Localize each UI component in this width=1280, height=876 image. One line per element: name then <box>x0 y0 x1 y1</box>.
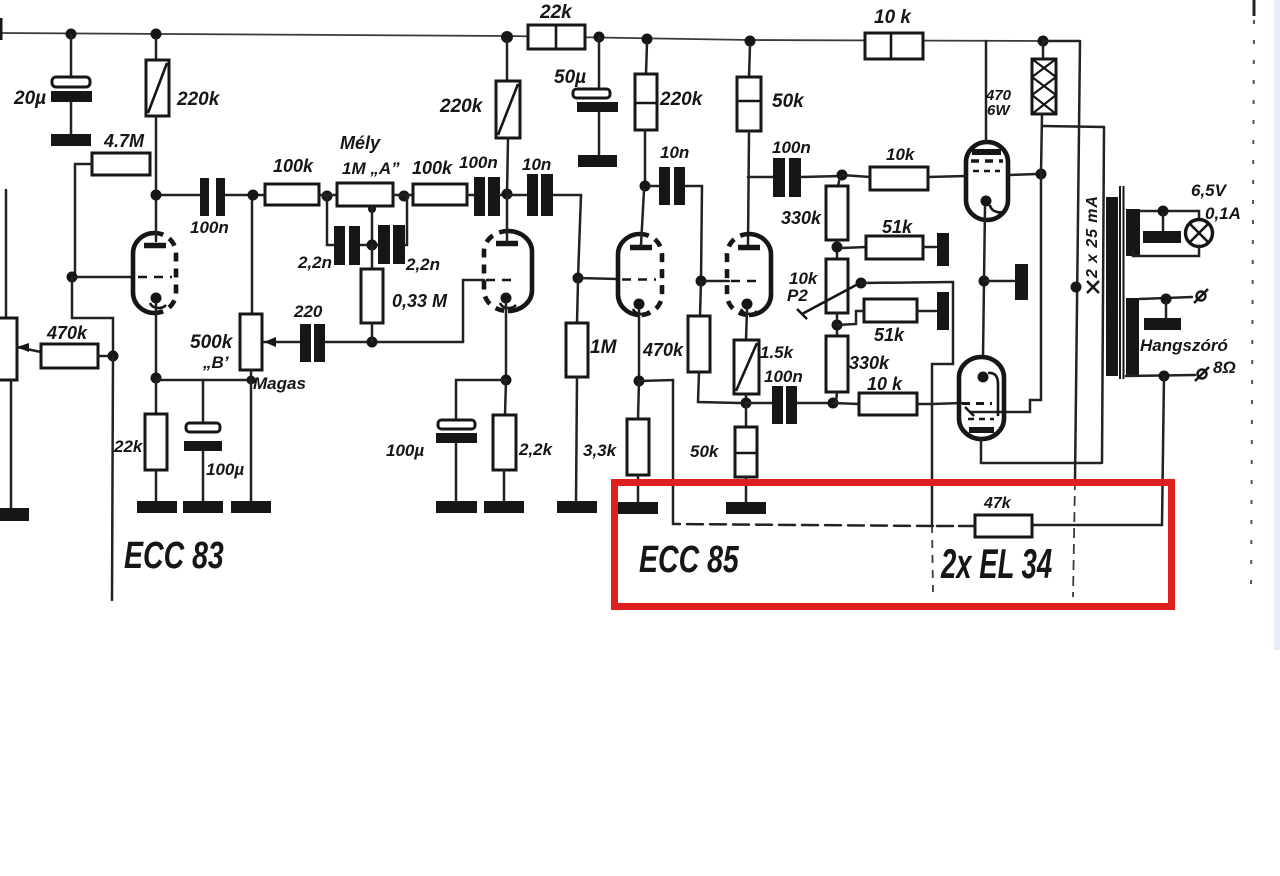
svg-text:470k: 470k <box>46 323 88 343</box>
potentiometer input volume (left edge) <box>5 190 8 318</box>
svg-text:ECC 85: ECC 85 <box>639 539 740 581</box>
resistor R20 330k lower <box>826 336 848 392</box>
svg-text:22k: 22k <box>539 2 573 23</box>
resistor R18 51k upper <box>842 247 866 248</box>
scan edge strip right <box>1274 0 1280 650</box>
capacitor C12 100n <box>748 176 773 179</box>
anode lead V5 to rail <box>985 41 988 142</box>
anode bar V6 <box>969 427 994 433</box>
svg-text:51k: 51k <box>882 217 913 237</box>
resistor R1 220k <box>155 38 158 60</box>
svg-text:2,2k: 2,2k <box>518 440 554 459</box>
resistor R22 10k grid EL34 upper <box>870 167 928 190</box>
resistor R21 10k bottom <box>833 403 859 404</box>
resistor R11 220k anode V3 <box>646 43 647 74</box>
capacitor C9 100µ <box>438 420 475 429</box>
resistor R12 3.3k <box>638 381 639 419</box>
resistor R25 470k input <box>41 344 98 368</box>
svg-text:Mély: Mély <box>340 133 381 153</box>
wiper arrow 500k <box>264 341 300 344</box>
svg-text:8Ω: 8Ω <box>1213 358 1236 377</box>
svg-text:100µ: 100µ <box>386 441 424 460</box>
svg-text:2 x 25 mA: 2 x 25 mA <box>1084 196 1101 279</box>
wire tone bottom rail <box>372 341 463 344</box>
capacitor C5 2.2n left <box>327 196 334 245</box>
transformer T1 primary lead <box>1102 127 1104 463</box>
svg-text:220k: 220k <box>659 89 704 110</box>
potentiometer 1M "A" bass <box>337 183 393 206</box>
grid dashes V6 <box>962 402 992 405</box>
cathode V3 <box>634 299 645 310</box>
resistor R17 330k upper <box>838 177 840 186</box>
feedback line down <box>1162 376 1164 525</box>
cathode V1 <box>151 293 162 304</box>
wire screen through V5 <box>1008 174 1037 175</box>
node: rail junction dots <box>66 29 77 40</box>
capacitor C6 2.2n right <box>360 244 378 247</box>
svg-text:Magas: Magas <box>253 374 306 393</box>
wire speaker top terminal <box>1139 297 1192 299</box>
wire 220 to tone rail <box>325 341 372 344</box>
wire screen EL34 chain <box>970 174 1041 412</box>
svg-text:0,33 M: 0,33 M <box>392 291 448 311</box>
resistor R6 0.33M <box>371 245 374 269</box>
svg-text:50µ: 50µ <box>554 67 586 88</box>
capacitor C3 220 <box>300 324 311 362</box>
svg-text:100n: 100n <box>190 218 229 237</box>
resistor R3 22k cathode <box>155 380 158 414</box>
resistor R10 22k rail <box>528 25 585 49</box>
cathode V5 <box>981 196 992 207</box>
svg-text:100k: 100k <box>412 158 453 178</box>
grid dashes V3 <box>622 278 656 281</box>
capacitor C4 100n <box>156 194 200 197</box>
filament center bar <box>1162 214 1165 231</box>
grid node V4 <box>696 276 707 287</box>
svg-text:Hangszóró: Hangszóró <box>1140 336 1228 355</box>
svg-text:330k: 330k <box>849 353 890 373</box>
cathode V2 <box>501 293 512 304</box>
lamp 6.5V <box>1186 220 1213 247</box>
anode bar V4 <box>738 245 760 251</box>
wire grid V1 <box>75 276 133 279</box>
svg-text:100k: 100k <box>273 156 314 176</box>
wire: left edge stub <box>0 18 3 40</box>
tube V2 ECC83b envelope <box>484 231 508 311</box>
svg-text:6W: 6W <box>987 102 1011 119</box>
wire to 100µ2 <box>456 380 506 420</box>
wire: B+ top rail <box>0 33 1043 41</box>
transformer core <box>1119 186 1121 379</box>
svg-text:2x EL 34: 2x EL 34 <box>940 540 1052 587</box>
grid dashes V1 <box>138 276 172 279</box>
svg-text:220: 220 <box>293 302 323 321</box>
svg-text:50k: 50k <box>690 442 720 461</box>
resistor R5 100k <box>413 184 467 205</box>
tube V1 ECC83a envelope <box>133 233 155 313</box>
svg-text:2,2n: 2,2n <box>297 253 332 272</box>
annotation red box <box>615 483 1172 607</box>
wire rail corner to transformer <box>1043 40 1080 43</box>
grid dashes V2 <box>486 279 516 282</box>
capacitor C11 10n <box>659 167 670 205</box>
svg-text:10n: 10n <box>522 155 551 174</box>
anode bar V5 <box>972 149 1001 155</box>
cathode lead V5 down <box>983 206 985 357</box>
resistor R7 1M grid <box>577 281 578 323</box>
tube V5 EL34 upper <box>966 142 1008 220</box>
potentiometer P 500k "B" treble <box>251 196 254 314</box>
wire cathode rail V1 <box>156 379 251 382</box>
tube V3 ECC85a envelope <box>618 234 640 315</box>
transformer speaker winding <box>1126 298 1139 376</box>
capacitor C8 10n <box>527 174 538 216</box>
resistor R4 100k <box>265 184 319 205</box>
anode bar V1 <box>144 243 166 249</box>
tube V4 ECC85b envelope <box>727 234 749 315</box>
svg-text:1M „A”: 1M „A” <box>342 159 400 178</box>
potentiometer P2 10k <box>826 259 848 313</box>
cathode lead V1 <box>155 303 158 378</box>
resistor R16 50k <box>745 403 748 427</box>
resistor R15 1.5k cathode V4 <box>734 340 759 394</box>
svg-text:100µ: 100µ <box>206 460 244 479</box>
resistor R14 470k grid V4 <box>700 281 701 316</box>
wire speaker bottom terminal <box>1126 375 1195 376</box>
wire grid EL34 lower <box>932 403 962 404</box>
transformer T1 primary winding <box>1106 197 1118 376</box>
svg-text:P2: P2 <box>787 286 808 305</box>
svg-text:51k: 51k <box>874 325 905 345</box>
speaker top ground bar <box>1165 302 1168 318</box>
resistor R19 51k lower <box>837 311 864 325</box>
resistor R9 220k anode V2 <box>506 41 509 81</box>
resistor R13 50k anode V4 <box>749 45 750 77</box>
anode lead V1 <box>155 196 158 241</box>
ground below R3 <box>137 501 177 513</box>
anode lead V6 <box>981 439 1101 463</box>
resistor R8 2.2k <box>505 380 506 415</box>
capacitor C13 100n <box>746 402 772 405</box>
svg-text:1M: 1M <box>590 337 618 358</box>
capacitor cathode bypass bar <box>984 280 1014 283</box>
svg-text:50k: 50k <box>772 91 805 112</box>
transformer filament winding <box>1126 209 1140 256</box>
svg-text:10 k: 10 k <box>874 7 912 28</box>
svg-text:3,3k: 3,3k <box>583 441 618 460</box>
svg-text:22k: 22k <box>113 437 144 456</box>
wire 10n to V3 grid node <box>553 195 581 278</box>
svg-text:330k: 330k <box>781 208 822 228</box>
svg-text:100n: 100n <box>772 138 811 157</box>
tube V6 EL34 lower <box>959 357 1004 439</box>
svg-text:500k: 500k <box>190 332 234 353</box>
capacitor C10 50µ <box>598 37 601 89</box>
svg-text:0,1A: 0,1A <box>1205 204 1241 223</box>
resistor R23 470 6W <box>1042 41 1045 59</box>
svg-text:470k: 470k <box>642 340 684 360</box>
svg-text:4.7M: 4.7M <box>103 131 145 151</box>
svg-text:ECC 83: ECC 83 <box>124 535 224 577</box>
capacitor C2 100µ <box>202 380 205 423</box>
svg-text:100n: 100n <box>459 153 498 172</box>
svg-text:1.5k: 1.5k <box>760 343 795 362</box>
anode lead V2 <box>506 195 509 241</box>
x mark 2x25mA <box>1087 281 1099 293</box>
svg-text:6,5V: 6,5V <box>1191 181 1228 200</box>
capacitor C1 20µ <box>70 34 73 77</box>
resistor R24 47k feedback <box>1032 524 1162 527</box>
svg-text:„B’: „B’ <box>202 353 229 372</box>
wire V3 cathode to feedback rail <box>639 380 673 524</box>
resistor R26 10k rail <box>865 33 923 59</box>
svg-text:2,2n: 2,2n <box>405 255 440 274</box>
cathode V6 <box>978 372 989 383</box>
wire filament to lamp <box>1140 211 1199 220</box>
grid dashes V5 <box>971 159 1003 162</box>
node grid junction V1 <box>67 272 78 283</box>
wire up to V2 grid <box>463 280 484 342</box>
anode bar V2 <box>496 241 518 247</box>
svg-text:220k: 220k <box>176 89 221 110</box>
svg-text:10k: 10k <box>886 145 916 164</box>
svg-text:10 k: 10 k <box>867 374 903 394</box>
resistor R2 4.7M <box>92 153 150 175</box>
scan dashed cut line right edge <box>1253 0 1256 16</box>
svg-text:100n: 100n <box>764 367 803 386</box>
anode bar V3 <box>630 245 652 251</box>
svg-text:10n: 10n <box>660 143 689 162</box>
svg-text:47k: 47k <box>983 495 1012 512</box>
cathode V4 <box>742 299 753 310</box>
wire 4.7M to grid line <box>75 164 92 277</box>
capacitor C7 100n coupling <box>474 177 485 216</box>
svg-text:20µ: 20µ <box>13 88 46 109</box>
svg-text:220k: 220k <box>439 96 484 117</box>
